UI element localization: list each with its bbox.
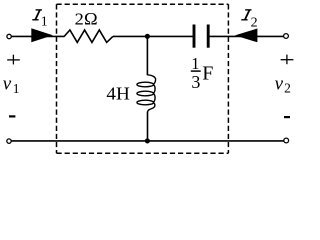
wire resistor to capacitor — [113, 35, 193, 37]
current arrow I1 — [31, 28, 53, 42]
capacitor C left plate — [193, 25, 196, 48]
label I1 — [32, 10, 42, 20]
label + (right port) — [281, 59, 294, 61]
dashed two-port network box — [57, 4, 229, 153]
wire node A to inductor — [146, 36, 148, 75]
current arrow I2 — [235, 29, 258, 43]
svg-text:2: 2 — [251, 16, 258, 31]
svg-text:2Ω: 2Ω — [75, 10, 98, 29]
node A junction dot — [145, 34, 150, 39]
svg-text:2: 2 — [284, 81, 291, 96]
svg-text:F: F — [202, 62, 213, 84]
terminal bottom-right — [284, 138, 289, 143]
terminal top-left — [7, 34, 11, 38]
wire capacitor to terminal right — [209, 35, 283, 37]
svg-text:1: 1 — [191, 54, 199, 73]
svg-text:1: 1 — [13, 81, 20, 96]
capacitor C right plate — [207, 25, 210, 48]
svg-text:3: 3 — [191, 72, 200, 92]
svg-text:4H: 4H — [106, 84, 129, 104]
svg-text:1: 1 — [41, 15, 48, 30]
label I2 — [241, 10, 251, 20]
bottom wire — [12, 140, 284, 142]
terminal bottom-left — [7, 139, 11, 143]
label - (left port) — [9, 115, 15, 117]
wire inductor to node B — [147, 112, 149, 141]
terminal top-right — [284, 34, 289, 39]
label - (right port) — [284, 116, 290, 118]
wire top-left lead — [12, 35, 65, 37]
label + (left port) — [7, 59, 20, 61]
node B junction dot — [145, 138, 150, 143]
svg-text:v: v — [275, 73, 284, 94]
svg-text:v: v — [3, 73, 12, 94]
inductor L 4H coil — [137, 75, 156, 112]
resistor R 2-ohm zigzag — [64, 30, 113, 42]
